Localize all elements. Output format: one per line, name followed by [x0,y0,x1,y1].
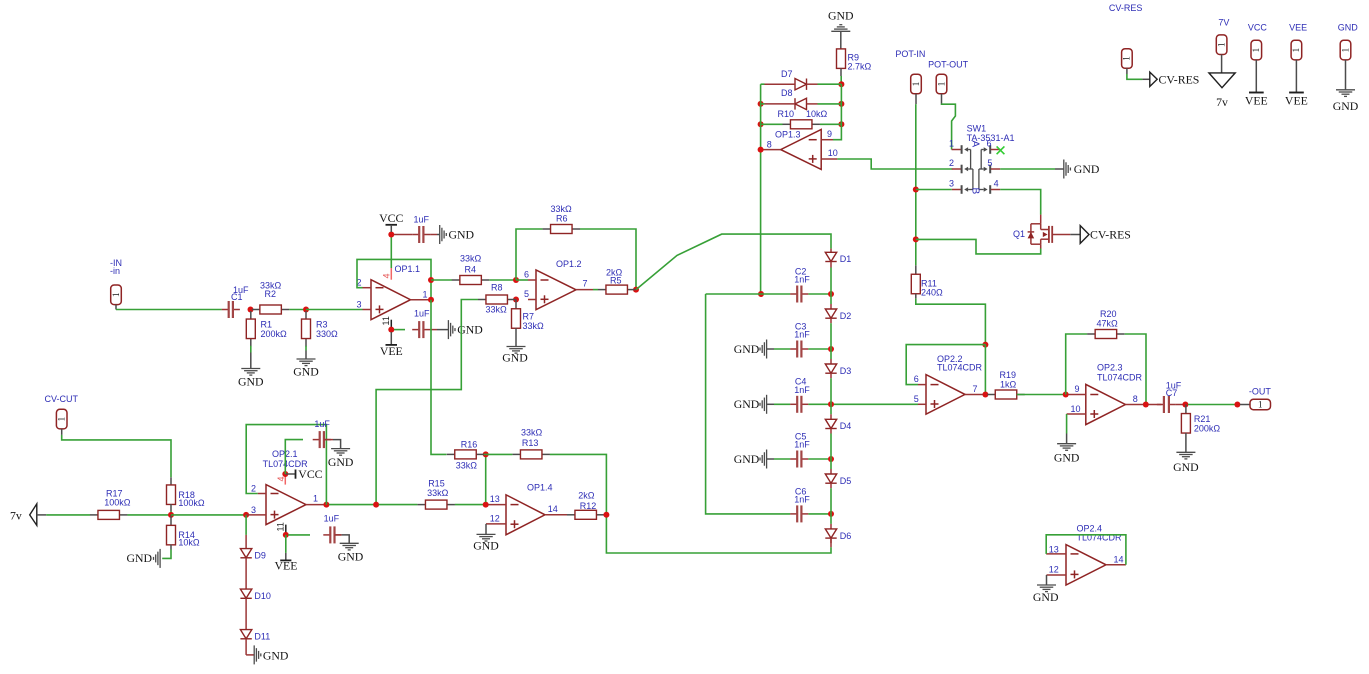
wire diagonal to ladder top [636,234,831,290]
svg-text:7V: 7V [1218,17,1229,27]
connector pin -OUT [1250,399,1271,409]
op-amp OP2.4 [1066,545,1106,585]
svg-text:5: 5 [987,158,992,168]
wire SW pin4 to Q1 [1000,190,1040,215]
wire D6 upper [830,514,832,524]
junction R8/R7/pin5 [513,297,519,303]
svg-text:200kΩ: 200kΩ [261,329,288,339]
svg-text:GND: GND [734,342,760,356]
connector pin VCC [1251,40,1262,60]
wire D4 upper [830,404,832,414]
resistor R17 100k&#937; [90,489,131,520]
svg-text:1: 1 [1340,48,1350,53]
junction OP2.3 output [1143,402,1149,408]
power VCC symbol [379,211,403,232]
op-amp OP1.4 [506,495,545,535]
resistor R7 33k&#937; [512,309,545,331]
wire R11 to loop node [916,299,986,345]
svg-text:GND: GND [1173,460,1199,474]
svg-text:2.7kΩ: 2.7kΩ [848,62,872,72]
capacitor C3 1nF [790,321,810,357]
wire D1 to C2 node [830,268,832,295]
svg-text:7: 7 [973,384,978,394]
op-amp OP2.2 pin5 lead [918,403,926,405]
svg-text:1: 1 [949,139,954,149]
wire SW pin5 to GND [1000,168,1055,170]
op-amp OP2.4 pin13 lead [1046,553,1066,555]
pin lead POT-IN [915,94,917,104]
wire C7 node to -OUT [1188,404,1235,406]
label OP2.1 texts [251,449,318,515]
op-amp OP1.4 pin14 lead [545,514,567,516]
op-amp OP2.4 pin12 lead [1047,574,1067,576]
op-amp OP1.1 [371,280,411,320]
wire R9 top stem [840,31,842,49]
svg-text:R8: R8 [491,283,503,293]
junction R8 net tap [373,502,379,508]
wire D5 lower [830,488,832,514]
capacitor C-VEE1 [412,321,430,338]
ground below R1 [238,369,264,389]
wire C4 row left [774,403,790,405]
svg-text:D4: D4 [840,421,852,431]
wire pin11 to VEE [285,535,287,553]
transistor Q1 [1013,215,1070,245]
svg-text:1: 1 [1251,48,1261,53]
svg-text:1: 1 [1216,42,1226,47]
resistor R13 33k&#937; [512,428,550,459]
wire C7 to R21 node [1176,404,1183,406]
junction VCC node [388,232,394,238]
svg-text:VEE: VEE [1245,94,1268,108]
svg-text:R2: R2 [265,289,277,299]
pin lead POT-OUT [941,94,943,104]
svg-text:100kΩ: 100kΩ [178,498,205,508]
wire D7 row right [818,83,842,85]
svg-text:OP1.4: OP1.4 [527,483,553,493]
wire D2 lower [830,323,832,349]
svg-text:GND: GND [1338,23,1359,33]
svg-text:GND: GND [263,648,289,662]
diode D1 top lead [830,249,832,253]
connector pin -IN [111,285,122,305]
junction -OUT node [1234,402,1240,408]
label -OUT name [1249,387,1271,397]
label CV-CUT name [45,394,79,404]
svg-text:A: A [970,141,981,148]
wire C5 row left [774,458,790,460]
svg-text:C1: C1 [231,292,243,302]
svg-text:C7: C7 [1166,388,1178,398]
junction pin13 node [483,502,489,508]
wire node to R13 [486,453,513,455]
wire OP1.1 feedback [357,259,431,299]
wire D3 upper [830,349,832,359]
svg-text:11: 11 [381,316,391,325]
op-amp OP2.3 pin8 lead [1125,404,1143,406]
connector pin CV-RES [1122,49,1133,69]
wire R6 loop left [516,229,543,280]
wire D4 lower [830,434,832,460]
wire OP2.1 out to R8 tap [329,504,374,506]
label cap value 1uF (VEE) [414,309,430,319]
svg-text:2kΩ: 2kΩ [578,491,595,501]
svg-text:3: 3 [949,179,954,189]
svg-text:33kΩ: 33kΩ [551,204,573,214]
pin lead -IN [115,305,117,310]
junction D8 right [838,101,844,107]
svg-text:GND: GND [449,228,475,242]
svg-text:33kΩ: 33kΩ [260,281,282,291]
svg-text:1: 1 [313,493,318,503]
svg-text:GND: GND [293,365,319,379]
svg-text:R4: R4 [465,265,477,275]
junction R12 output node [603,512,609,518]
wire R4 to pin6 node [489,279,516,281]
connector pin POT-IN [911,74,922,94]
wire OP1.4 gnd stem [485,524,487,535]
connector pin GND [1340,40,1351,60]
ground above R9 [831,0,1369,31]
wire tap to R15 [379,504,418,506]
diode D11 bottom lead [246,639,254,655]
svg-text:-in: -in [110,266,120,276]
op-amp OP1.1 pin1 lead [411,299,429,301]
svg-text:TL074CDR: TL074CDR [1097,373,1143,383]
op-amp OP1.4 pin13 lead [488,504,506,506]
svg-text:GND: GND [238,375,264,389]
svg-text:D6: D6 [840,531,852,541]
svg-text:10: 10 [1071,404,1081,414]
svg-text:11: 11 [276,522,286,531]
connector pin POT-OUT [936,74,947,94]
resistor R10 10k&#937; [778,109,828,129]
svg-text:GND: GND [473,539,499,553]
svg-text:C3: C3 [795,321,807,331]
diode D10 [240,589,271,601]
resistor R7 top lead [515,300,517,309]
svg-text:2: 2 [949,158,954,168]
junction OP1.1 output [428,297,434,303]
wire OP2.1 vcc cap right [324,440,341,449]
label GND name [1338,23,1359,33]
wire OP2.4 feedback [1046,535,1126,565]
svg-text:GND: GND [338,549,364,563]
wire pin7 to R5 [593,289,598,291]
svg-text:R12: R12 [580,501,597,511]
op-amp OP1.1 pin11 line [381,316,391,329]
op-amp OP1.1 pin2 lead [363,287,372,289]
connector pin VEE [1291,40,1302,60]
wire -IN to C1 [116,309,222,311]
wire R10 row left [761,123,783,125]
junction ladder C2 [828,291,834,297]
label cap value 1uF (OP2.1 VCC) [314,419,330,429]
svg-text:10kΩ: 10kΩ [178,538,200,548]
svg-text:D3: D3 [840,366,852,376]
junction pin3/D9 [243,512,249,518]
svg-text:8: 8 [1133,394,1138,404]
svg-text:33kΩ: 33kΩ [486,305,508,315]
wire 7v to R17 [46,514,90,516]
connector pin CV-CUT [56,409,67,429]
wire CV-CUT to R18 [62,435,171,477]
resistor R9 2.7k&#937; [837,49,872,72]
svg-text:OP1.3: OP1.3 [775,129,801,139]
junction C7/R21 [1182,402,1188,408]
label OP2.3 texts [1071,363,1143,414]
svg-text:D10: D10 [254,591,271,601]
svg-text:1uF: 1uF [324,513,340,523]
svg-text:3: 3 [251,505,256,515]
svg-text:330Ω: 330Ω [316,329,338,339]
junction R4/R6/pin6 [513,277,519,283]
wire R9 to D7 node [840,76,842,84]
svg-text:CV-RES: CV-RES [1090,227,1131,241]
junction C2 left tap [758,291,764,297]
capacitor C-VCC1 [412,226,430,243]
svg-text:GND: GND [828,8,854,22]
svg-text:100kΩ: 100kΩ [104,498,131,508]
wire Q1 source net [916,239,1041,254]
svg-text:D11: D11 [254,631,270,641]
label OP2.2 texts [914,354,983,404]
ground at C5 [734,450,767,469]
wire ladder bottom to R12 node [606,515,831,553]
wire loop to output [984,345,986,395]
wire C2 row right [808,293,831,295]
label -IN name [110,258,122,276]
svg-text:R10: R10 [778,109,795,119]
wire POT-OUT to SW pin1 [942,104,956,150]
ground below OP2.3 pin10 [1054,444,1080,465]
resistor R5 2k&#937; [598,268,636,295]
wire R18 to node [170,511,172,515]
op-amp OP2.1 pin1 lead [306,504,324,506]
resistor R14 top lead [170,515,172,526]
resistor R6 33k&#937; [543,204,581,234]
junction OP2.2 output [982,392,988,398]
junction pin8 node [758,147,764,153]
wire to R4 [431,279,452,281]
wire pin13 vertical [485,454,487,502]
wire C4 row right [808,403,831,405]
power VEE symbol (OP2.1) [275,553,298,572]
wire pin10 to GND [1066,414,1068,434]
diode D3 [825,359,851,378]
junction R10 left [758,121,764,127]
wire R20 loop right [1125,334,1146,405]
label CV-RES arrow [1150,72,1200,86]
label POT-IN name [895,49,925,59]
connector pin 7V [1216,35,1227,55]
resistor R1 200k&#937; [246,311,287,347]
svg-text:12: 12 [490,514,500,524]
pin lead GND [1345,60,1347,90]
wire D7 row left [761,83,765,85]
svg-text:33kΩ: 33kΩ [460,254,482,264]
label VEE name [1289,23,1307,33]
ground below OP1.4 pin12 [473,534,499,552]
op-amp OP2.1 [266,485,306,525]
svg-text:R1: R1 [261,320,273,330]
ground at C4 [734,395,767,414]
svg-text:OP2.3: OP2.3 [1097,363,1123,373]
ground at C3 [734,340,767,359]
op-amp OP2.2 pin7 lead [965,394,983,396]
junction ladder C5 [828,456,834,462]
wire D5 upper [830,459,832,469]
diode chain lead2 [245,598,247,629]
wire R6 loop right [580,229,636,287]
svg-text:7: 7 [583,278,588,288]
diode D6 bottom lead [830,538,832,547]
label CV-RES name [1109,3,1143,13]
capacitor C5 1nF [790,431,810,467]
wire left rail D7-C2 [760,84,762,294]
wire OP2.2 loop [906,345,985,385]
wire C2 row left [706,293,791,295]
svg-text:8: 8 [767,139,772,149]
wire rail to R16 [431,300,447,455]
svg-text:R7: R7 [523,312,535,322]
resistor R8 33k&#937; [478,283,516,315]
svg-text:B: B [970,188,981,195]
svg-text:VEE: VEE [1289,23,1307,33]
junction R5 output node [633,287,639,293]
op-amp OP2.1 pin2 lead [258,493,266,495]
svg-text:GND: GND [1054,451,1080,465]
svg-text:33kΩ: 33kΩ [456,460,478,470]
svg-text:OP1.1: OP1.1 [395,264,421,274]
power VEE bar (VEE pin) [1285,93,1308,108]
svg-text:7v: 7v [10,509,22,523]
capacitor C-VCC2 [313,431,331,448]
power VEE symbol [380,332,403,358]
svg-text:33kΩ: 33kΩ [523,321,545,331]
wire VCC to pin4 [390,235,392,269]
label OP1.4 texts [490,483,558,524]
resistor R21 200k&#937; [1181,414,1220,434]
resistor R11 240&#937; [911,274,943,297]
svg-text:33kΩ: 33kΩ [521,428,543,438]
wire D8 row left [761,103,765,105]
op-amp OP2.2 [926,375,965,415]
svg-text:TL074CDR: TL074CDR [937,362,983,372]
svg-text:VEE: VEE [380,344,403,358]
ground VEE bypass [448,320,483,339]
svg-text:1: 1 [111,293,121,298]
wire C5 row right [808,458,831,460]
power 7v arrow [10,504,46,526]
pin lead VEE [1295,60,1297,92]
wire R2 to junction [289,309,306,311]
svg-text:POT-OUT: POT-OUT [928,60,969,70]
resistor R21 top lead [1185,405,1187,414]
svg-text:10: 10 [828,148,838,158]
junction ladder C3 [828,346,834,352]
diode D2 [825,304,851,323]
diode D8 [765,88,818,110]
wire node to OP2.1 pin3 [171,514,244,516]
diode D7 [765,69,818,90]
label OP1.1 texts [357,264,428,310]
junction R16/R13 node [483,451,489,457]
op-amp OP1.3 pin8 lead [762,149,781,151]
junction R2/R3/pin3 [303,307,309,313]
junction pin11 node [388,327,394,333]
wire pin6 wire [516,279,528,281]
capacitor C4 1nF [790,377,810,413]
resistor R11 top lead [915,265,917,274]
op-amp OP1.2 pin5 lead [528,299,536,301]
wire VCC node to cap [285,440,303,474]
svg-text:C5: C5 [795,431,807,441]
svg-text:GND: GND [1333,99,1359,113]
svg-text:C4: C4 [795,377,807,387]
svg-text:1: 1 [423,290,428,300]
ground at R14 [126,549,160,568]
svg-text:9: 9 [1075,384,1080,394]
wire C4 gnd lead [767,403,774,405]
svg-text:1kΩ: 1kΩ [1000,380,1017,390]
wire R8 to OP2.1 net [376,300,478,505]
wire OP2.3 gnd stem [1066,434,1068,444]
resistor R16 33k&#937; [447,440,485,471]
capacitor C7 1uF [1157,380,1182,413]
svg-text:33kΩ: 33kΩ [427,488,449,498]
junction Q1 net tap [913,236,919,242]
svg-text:D9: D9 [254,550,266,560]
ground GND pin [1333,90,1359,113]
resistor R3 330&#937; [302,311,339,347]
svg-text:R3: R3 [316,320,328,330]
ground OP2.1 VEE bypass [338,543,364,563]
wire R9 bottom [840,68,842,76]
svg-text:Q1: Q1 [1013,229,1025,239]
wire D3 lower [830,378,832,404]
pin lead CV-CUT [61,429,63,435]
junction R17/R18/R14 [168,512,174,518]
label CV-RES arrow (Q1) [1080,226,1131,244]
svg-text:VCC: VCC [1248,23,1268,33]
junction SW pin3 tap [913,187,919,193]
wire C3 gnd lead [767,348,774,350]
svg-text:2kΩ: 2kΩ [606,268,623,278]
junction R11/loop [982,342,988,348]
ground VCC bypass [440,225,475,244]
wire pin3 node down [245,515,247,535]
junction ladder C6 [828,511,834,517]
svg-text:VEE: VEE [275,558,298,572]
svg-text:1: 1 [1122,56,1132,61]
wire POT-IN rail [915,104,917,265]
svg-text:14: 14 [1114,555,1124,565]
svg-text:D1: D1 [840,254,852,264]
wire D8 row right [818,103,842,105]
ground OP2.1 VCC bypass [328,449,354,469]
wire tap to SW pin3 [916,189,952,191]
wire R19 to pin9 node [1017,394,1066,396]
op-amp OP1.2 pin6 lead [528,279,536,281]
svg-text:GND: GND [734,397,760,411]
wire pin11 to cap [288,534,310,536]
svg-text:4: 4 [382,273,392,278]
svg-text:VEE: VEE [1285,94,1308,108]
junction ladder C4 [828,401,834,407]
junction C1/R2/R1 [248,307,254,313]
label VCC name [1248,23,1268,33]
